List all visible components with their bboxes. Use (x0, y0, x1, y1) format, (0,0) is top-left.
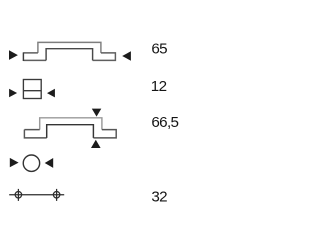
row3 arrow up (91, 140, 101, 148)
row5 crosshair vertical right (56, 189, 58, 201)
circle (23, 155, 39, 171)
svg-text:12: 12 (151, 78, 167, 95)
hat profile 2 flanges and lips (24, 130, 116, 138)
stacked squares (height 12) (23, 80, 41, 99)
profile 1 flanges and right lip (23, 53, 115, 61)
hat profile 2 inner contour (47, 125, 94, 138)
hat profile 1 (width 65) (23, 42, 115, 61)
row3 arrow down (92, 109, 102, 117)
row5 crosshair circle right (53, 191, 60, 198)
row2 arrow right (47, 89, 55, 98)
row4 arrow right (45, 158, 54, 168)
svg-text:65: 65 (151, 41, 167, 58)
row1 arrow left (9, 50, 18, 60)
row1 arrow right (122, 51, 131, 60)
profile 1 raised top outer (38, 42, 101, 53)
profile 1 left lip (22, 52, 24, 61)
row5 crosshair circle left (15, 191, 22, 198)
hat profile 2 top line (light) (40, 118, 102, 130)
divider line (23, 90, 41, 92)
row4 arrow left (10, 158, 19, 167)
svg-text:32: 32 (151, 188, 167, 205)
row2 arrow left (9, 89, 17, 98)
row5 horizontal dimension line (9, 194, 64, 196)
svg-text:66,5: 66,5 (151, 114, 178, 131)
profile 1 inner contour (46, 49, 93, 61)
row5 crosshair vertical left (17, 189, 19, 201)
